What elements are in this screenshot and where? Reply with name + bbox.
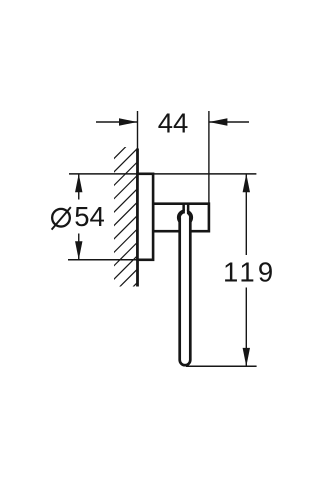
dim line 44 left segment	[96, 121, 138, 123]
arrow 44 left	[119, 118, 138, 125]
svg-text:119: 119	[223, 256, 276, 287]
svg-text:54: 54	[74, 201, 105, 232]
wall plate (side view)	[138, 174, 154, 260]
dim line dia54 upper segment	[78, 174, 80, 200]
arrow dia54 down	[75, 241, 82, 259]
dim line 119 lower segment	[245, 288, 247, 367]
bracket (holder arm, side view)	[153, 204, 209, 232]
arrow 119 up	[243, 174, 250, 193]
extension line dia54 bottom	[68, 259, 138, 261]
dim line 119 upper segment	[245, 174, 247, 255]
ring tube (hanging loop)	[180, 218, 191, 366]
arrow dia54 up	[75, 174, 82, 193]
extension line 44 right	[208, 111, 210, 203]
svg-text:44: 44	[158, 107, 189, 138]
pin left	[182, 205, 185, 211]
arrow 119 down	[243, 348, 250, 367]
pin slot (white gap)	[185, 205, 187, 215]
ring eye (loop top around pin)	[179, 211, 191, 223]
diameter symbol slash	[52, 207, 71, 230]
extension line 119 bottom	[186, 365, 257, 367]
wall hatching	[0, 130, 290, 300]
wall line	[136, 149, 139, 287]
extension line top (shared by dia54 and 119)	[69, 173, 256, 175]
pin right	[187, 205, 190, 211]
dim line 44 right segment	[209, 121, 249, 123]
extension line 44 left	[137, 111, 139, 150]
diameter symbol circle	[52, 209, 70, 227]
arrow 44 right	[209, 118, 228, 125]
dim line dia54 lower segment	[78, 234, 80, 260]
